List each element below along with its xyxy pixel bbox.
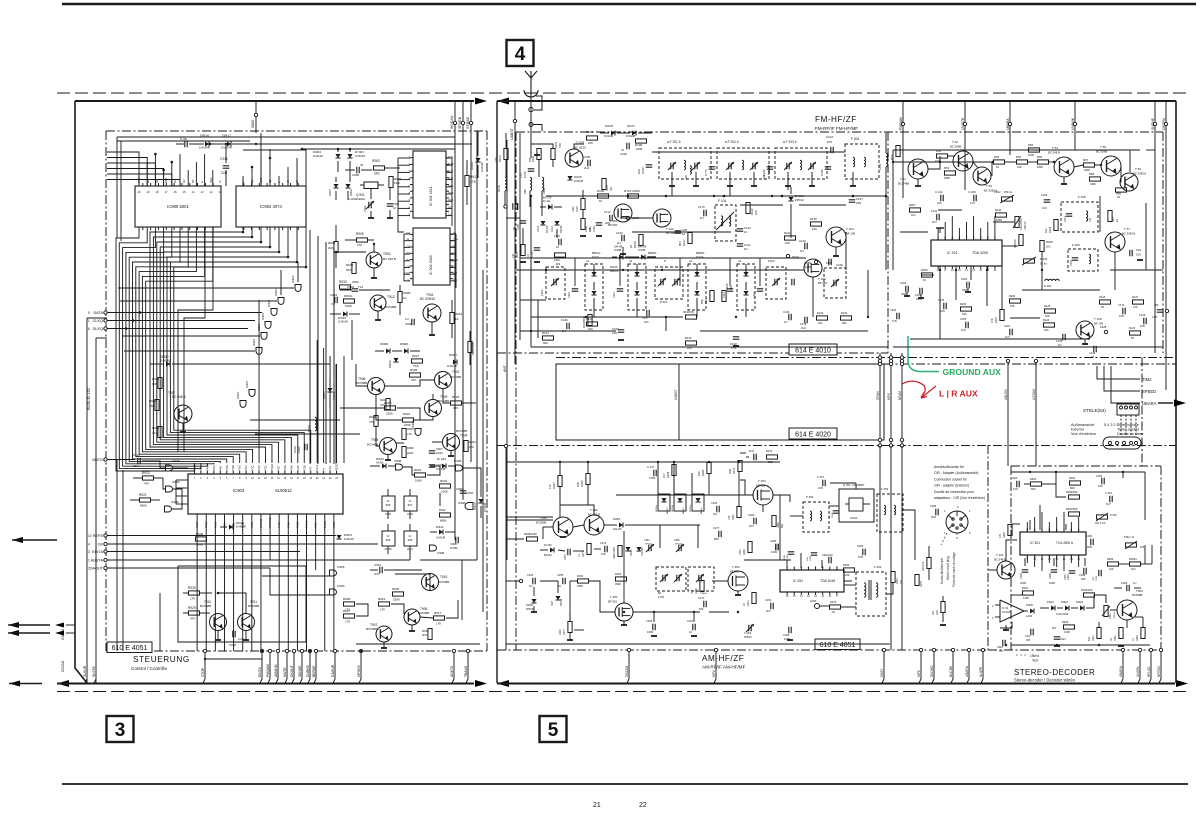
resistor R303 [1069, 495, 1080, 499]
svg-text:IC906: IC906 [337, 565, 345, 569]
svg-text:390K: 390K [615, 582, 621, 586]
svg-text:DLEQ: DLEQ [93, 327, 103, 331]
svg-text:C906: C906 [297, 446, 301, 453]
svg-text:4K7: 4K7 [152, 431, 158, 435]
wire SLKUR [86, 651, 88, 683]
svg-text:9: 9 [88, 311, 90, 315]
svg-text:BC548B: BC548B [385, 305, 396, 309]
resistor R104 [504, 149, 508, 160]
diode DI256 [531, 599, 536, 603]
wire t-mesh-4 [432, 441, 443, 443]
svg-text:R253: R253 [615, 572, 622, 576]
svg-text:R92A: R92A [384, 401, 392, 405]
svg-text:R59: R59 [994, 155, 1000, 159]
wire r310 [928, 546, 930, 557]
svg-text:1N4148: 1N4148 [626, 134, 636, 138]
wire DLEQ [107, 328, 248, 330]
wire bus905-8 [142, 227, 246, 463]
svg-text:SLKUR: SLKUR [83, 665, 87, 677]
svg-text:T 54: T 54 [1052, 146, 1058, 150]
gate IC907-1 [278, 298, 284, 305]
svg-text:R330: R330 [1003, 532, 1006, 538]
gate IC909m [330, 589, 337, 595]
svg-text:10K: 10K [152, 382, 157, 386]
wire st di chain [1093, 595, 1095, 608]
wire tl-stair 2 [107, 163, 155, 186]
svg-text:R125: R125 [1044, 304, 1051, 308]
resistor R106 [587, 136, 598, 140]
resistor R118b [722, 291, 726, 302]
wire ic901 rpin 5 [446, 193, 452, 195]
wire am h 612b [709, 611, 729, 613]
svg-text:C90B: C90B [352, 173, 359, 177]
wire ic901 rpin 3 [446, 179, 452, 181]
ground am 6 [691, 635, 697, 637]
wire tl-stair 5 [107, 180, 180, 187]
svg-text:4TK: 4TK [453, 406, 459, 410]
margin arrow B1 [8, 622, 19, 628]
ground T904 [450, 451, 452, 457]
svg-text:1M: 1M [713, 512, 717, 516]
bus arrow bottom right-end of left segment [475, 680, 487, 687]
wire ic201 riser 8 [994, 216, 996, 240]
svg-text:T917: T917 [168, 391, 175, 395]
svg-text:R274: R274 [896, 578, 899, 584]
svg-text:1U: 1U [1133, 581, 1136, 585]
capacitor C307 [1069, 570, 1076, 572]
svg-text:13MHz: 13MHz [700, 593, 707, 595]
svg-text:a F 203 b: a F 203 b [783, 140, 797, 144]
svg-text:EINTA: EINTA [258, 667, 262, 677]
capacitor C905 [411, 319, 413, 326]
wire am h581 mid2 [570, 580, 577, 582]
junction dot 586-317 [585, 316, 587, 318]
svg-text:100K: 100K [441, 490, 448, 494]
svg-text:DI90?: DI90? [328, 189, 332, 196]
wire sim2b [260, 133, 262, 186]
svg-text:C311: C311 [1025, 635, 1031, 638]
svg-text:P 501: P 501 [660, 300, 668, 304]
svg-text:C911: C911 [220, 157, 228, 161]
svg-text:L201: L201 [685, 174, 688, 180]
ground T906 [411, 625, 413, 631]
diode DI914 [442, 463, 446, 468]
wire st h520 [1011, 523, 1020, 525]
wire zf v down3 [970, 266, 972, 280]
junction dot 361-651 [360, 650, 362, 652]
svg-text:BERKE: BERKE [312, 665, 316, 677]
svg-text:1N: 1N [556, 246, 559, 249]
resistor R383 [1141, 628, 1145, 639]
svg-text:100N: 100N [784, 554, 786, 560]
svg-text:C 253: C 253 [744, 631, 751, 635]
svg-text:C209: C209 [1041, 193, 1048, 197]
wire ic904 riser rail [243, 149, 306, 151]
diode D188 [1104, 330, 1107, 333]
wire SLKUR vertical long [86, 318, 88, 651]
transistor T256 [584, 515, 604, 535]
diode DI904 [335, 154, 340, 158]
P254 coils [810, 511, 812, 521]
wire fm rail 258 [520, 257, 806, 259]
junction dot 1006-645 [1005, 644, 1007, 646]
wire bottom h644 [356, 643, 480, 645]
wire am pin OSZ? [883, 650, 885, 679]
wire ic903-top-21 [329, 356, 331, 463]
svg-text:R929: R929 [188, 606, 196, 610]
left module chain border bottom [106, 650, 487, 652]
wire ic201 rail b [993, 221, 1014, 223]
wire st c309 [1134, 587, 1141, 589]
svg-text:16N: 16N [133, 464, 139, 468]
wire fm h205 [799, 204, 846, 206]
wire am rail h2 [506, 580, 519, 582]
wire CLKO [107, 320, 255, 322]
wire fm var bot 3 [696, 310, 698, 317]
node drop SUCHE [1153, 122, 1156, 125]
wire fm-left v5 [867, 270, 869, 317]
svg-text:C903: C903 [363, 205, 367, 212]
svg-text:C123: C123 [1089, 351, 1096, 355]
svg-text:IC90B: IC90B [458, 501, 465, 505]
svg-text:PU/V: PU/V [289, 465, 293, 471]
svg-text:E: E [200, 181, 204, 183]
svg-text:15: 15 [182, 190, 186, 194]
wire pin BERKE [315, 651, 317, 679]
wire fm-left h5 [531, 346, 888, 348]
junction dot 1057-645 [1056, 644, 1058, 646]
svg-text:12: 12 [744, 230, 748, 234]
timer socket oval [1103, 437, 1141, 449]
svg-text:C305: C305 [1020, 573, 1023, 579]
wire st h595 [1011, 594, 1022, 596]
wire DAOUT [107, 567, 270, 569]
capacitor C104 [534, 247, 541, 249]
wire fm v791 [790, 214, 792, 238]
svg-text:F103: F103 [768, 259, 775, 263]
gate IC908r2 [456, 465, 463, 471]
stereo module chain bottom [988, 649, 1161, 651]
node UBLEN [1006, 359, 1009, 362]
module label box 614 E 4020 [789, 428, 837, 439]
resistor R920 [374, 416, 378, 427]
wire fm-left h7 [546, 269, 786, 271]
capacitor C903t [368, 202, 370, 209]
capacitor C124 [1122, 308, 1124, 315]
top dashed margin line [57, 92, 1190, 94]
node am pin DKDMD [932, 648, 935, 651]
wire zf h-a [893, 161, 994, 163]
wire bus905-3 [126, 227, 214, 464]
svg-text:8P2: 8P2 [678, 241, 682, 246]
svg-text:UPSHS: UPSHS [357, 665, 361, 677]
svg-text:R952: R952 [152, 426, 160, 430]
wire vertical rail v2 [317, 236, 319, 464]
svg-text:1N4148: 1N4148 [344, 537, 354, 541]
svg-text:UABST: UABST [510, 127, 514, 140]
wire zf mesh 9 [1095, 164, 1101, 166]
svg-text:R303/56K: R303/56K [1066, 490, 1078, 494]
annotation L R AUX arrow [902, 381, 925, 397]
wire ic901 pin 5 [398, 193, 410, 195]
wire filter drop 1 [671, 179, 673, 196]
svg-text:R256: R256 [580, 480, 584, 487]
resistor R321 [1097, 628, 1101, 639]
wire zf far v2 [1129, 150, 1131, 172]
wire zf mesh 8 [1074, 165, 1083, 167]
resistor R60 [1116, 188, 1127, 192]
svg-text:C321: C321 [1060, 638, 1066, 641]
svg-text:STOP: STOP [201, 667, 205, 677]
svg-text:C269: C269 [832, 512, 834, 518]
svg-text:CLKQ: CLKQ [93, 319, 103, 323]
svg-text:D1: D1 [191, 179, 195, 183]
capacitor C176 [703, 210, 705, 217]
wire ic902 rpin 7 [450, 280, 456, 282]
wire ic903-bot-7 [260, 517, 262, 651]
wire ic904 riser 4 [278, 176, 280, 186]
varactor diode A1-1 [634, 272, 639, 276]
ground C109 [618, 339, 624, 341]
resistor R952 [158, 427, 162, 438]
wire st v3 [1144, 472, 1146, 520]
wire ic901 pin 1 [398, 164, 410, 166]
svg-text:R111: R111 [704, 298, 708, 304]
wire ic301 dropper 6 [1070, 555, 1072, 563]
wire fm in 2 [574, 144, 584, 149]
svg-text:10K F 1%: 10K F 1% [1095, 522, 1106, 525]
junction dot 226-144 [225, 143, 227, 145]
svg-text:LTK: LTK [691, 589, 694, 594]
resistor R257 [587, 544, 591, 555]
wire bus905-7 [139, 227, 240, 463]
transistor T101 BP980 [614, 204, 632, 222]
svg-text:AAN3: AAN3 [1026, 615, 1033, 618]
junction dot r4 [251, 166, 254, 169]
junction dot 666-317 [665, 316, 667, 318]
wire fm-left h6 [546, 195, 886, 197]
ground T912 [377, 311, 379, 320]
wire ic903-top-22 [336, 364, 338, 463]
transformer F104 primary [721, 216, 723, 226]
wire am h520 [506, 519, 553, 521]
svg-text:1N4148: 1N4148 [574, 179, 584, 183]
junction dot 993-162 [992, 161, 994, 163]
transistor T251 [615, 603, 633, 621]
wire zf long mid2 [1002, 245, 1018, 247]
svg-text:IC909: IC909 [337, 584, 345, 588]
trimmer cap in 201b [670, 163, 672, 170]
svg-text:TIM2: TIM2 [1142, 377, 1152, 382]
wire fm var drop 5 [759, 258, 761, 286]
svg-text:10K: 10K [1017, 165, 1022, 169]
wire stair2-1 [178, 227, 213, 452]
node DI109 [626, 216, 629, 219]
svg-text:R11B: R11B [725, 283, 729, 290]
junction dot 336-252 [335, 251, 337, 253]
resistor R282 [772, 516, 776, 527]
wire REFE [107, 535, 336, 537]
svg-text:BF 199: BF 199 [1094, 322, 1103, 326]
resistor R906 [196, 537, 207, 541]
capacitor C907 [429, 450, 436, 452]
svg-text:R930: R930 [188, 586, 196, 590]
svg-text:100K: 100K [572, 206, 575, 212]
wire st below ic3 [1084, 558, 1086, 566]
wire gate out 1 [173, 467, 188, 469]
ground C61 [1138, 252, 1143, 254]
svg-text:AAN3: AAN3 [376, 461, 384, 465]
node st pin NFLSD [1149, 648, 1152, 651]
wire tl-stair 4 [107, 174, 172, 186]
svg-text:1N4148: 1N4148 [604, 134, 614, 138]
varactor diode A2-3 [743, 272, 748, 276]
resistor R118c [602, 179, 606, 190]
svg-text:BC 308/16: BC 308/16 [1122, 232, 1136, 236]
svg-text:DI107: DI107 [627, 124, 635, 128]
resistor R202 [922, 273, 933, 277]
capacitor ant gnd [512, 203, 514, 210]
svg-text:2U25F: 2U25F [450, 546, 458, 550]
svg-text:22N: 22N [940, 309, 945, 313]
wire fm antenna rail [506, 217, 520, 219]
resistor R917m [434, 616, 445, 620]
gate IC907-2 [271, 309, 277, 316]
wire bus904-4 [164, 227, 292, 463]
svg-text:R208: R208 [1046, 240, 1053, 244]
junction dot r1 [154, 153, 157, 156]
svg-text:907: 907 [408, 503, 413, 507]
resistor R105b [521, 245, 525, 256]
svg-text:BA379: BA379 [546, 225, 549, 233]
svg-text:DATA: DATA [93, 311, 103, 315]
svg-text:BF: BF [658, 592, 662, 595]
svg-text:C126: C126 [1139, 313, 1146, 317]
svg-text:C111: C111 [612, 292, 616, 298]
capacitor C228 [626, 143, 628, 150]
wire r-cluster 3 [427, 466, 440, 475]
wire AUSTA drop [409, 548, 411, 560]
capacitor C320 [1002, 640, 1004, 647]
wire zf mesh 5 [1005, 161, 1016, 163]
capacitor C128 [733, 336, 740, 338]
resistor R921b [386, 399, 390, 410]
node WDAU [453, 121, 456, 124]
svg-text:DI 111: DI 111 [543, 199, 551, 203]
gate IC907-4 [261, 333, 267, 340]
svg-text:C910: C910 [436, 463, 443, 467]
svg-text:IC907: IC907 [257, 323, 261, 331]
wire zf v down2 [955, 266, 957, 300]
svg-text:T901: T901 [383, 252, 391, 256]
svg-text:16K: 16K [576, 482, 580, 487]
wire drop UWSTE [964, 101, 966, 132]
svg-text:1N4148: 1N4148 [436, 536, 446, 540]
node am pin OSZ? [882, 648, 885, 651]
node pin DKOUT [292, 649, 295, 652]
capacitor C302 [1090, 539, 1092, 546]
wire pin SENKE [301, 651, 303, 679]
svg-text:POB: POB [302, 465, 306, 471]
svg-text:614 E 4020: 614 E 4020 [795, 432, 831, 439]
ground st 1 [1003, 629, 1009, 631]
svg-text:C256: C256 [646, 619, 653, 623]
wire ic903-top-19 [316, 340, 318, 463]
gate IC907-5 [256, 348, 262, 355]
svg-text:BC548B: BC548B [418, 611, 429, 615]
svg-text:10K: 10K [588, 141, 593, 145]
svg-text:DI 252: DI 252 [544, 543, 552, 547]
resistor R902b [464, 441, 468, 452]
svg-text:BF 962: BF 962 [608, 600, 617, 604]
wire st top 2 [1042, 483, 1056, 485]
resistor R330 [1008, 525, 1012, 536]
wire ic903-bot-9 [278, 517, 280, 651]
svg-text:180K: 180K [944, 176, 950, 180]
svg-text:19kHz: 19kHz [1030, 654, 1039, 658]
svg-text:BF 960: BF 960 [818, 281, 827, 285]
wire am rail h [506, 461, 780, 463]
wire top feed 1 [117, 136, 455, 138]
wire filter mid link [600, 138, 652, 144]
capacitor C274v [703, 601, 705, 608]
wire st top 1 [1024, 483, 1030, 485]
svg-text:FM-RF/IF FM-HF/MF: FM-RF/IF FM-HF/MF [815, 126, 858, 131]
wire st t303 [1110, 609, 1117, 611]
svg-text:IC905 5001: IC905 5001 [167, 204, 189, 209]
svg-text:R928: R928 [343, 597, 351, 601]
wire ic901 pin 7 [398, 207, 410, 209]
svg-text:R124: R124 [1043, 318, 1050, 322]
trimmer F183 [824, 268, 846, 298]
wire ic301 riser 0 [1026, 522, 1028, 532]
resistor R902 [374, 166, 385, 170]
svg-text:Außenansicht: Außenansicht [1071, 423, 1095, 427]
wire am v739 [738, 472, 740, 506]
svg-text:470N: 470N [649, 476, 655, 480]
svg-text:7/5K lin: 7/5K lin [1114, 611, 1116, 619]
gate IC907-7 [240, 401, 246, 408]
svg-text:1N5: 1N5 [1026, 639, 1031, 642]
svg-text:a F 201 b: a F 201 b [667, 140, 681, 144]
svg-text:10K: 10K [812, 227, 817, 231]
svg-text:2U2: 2U2 [801, 326, 806, 330]
svg-text:10K: 10K [785, 241, 790, 245]
resistor R205v [1000, 310, 1004, 321]
svg-text:R923: R923 [440, 479, 448, 483]
wire ic903-bot-13 [315, 517, 317, 570]
wire st p321 [1105, 595, 1107, 603]
wire ic903-bot-5 [242, 517, 244, 651]
wire pin STOP [204, 651, 206, 679]
svg-text:adaptateur - CIR (Vue d’extéri: adaptateur - CIR (Vue d’extérieur) [934, 496, 985, 500]
svg-text:BC548B: BC548B [366, 627, 377, 631]
svg-text:25B: 25B [768, 460, 773, 464]
svg-text:18K: 18K [610, 186, 613, 191]
svg-text:T905: T905 [371, 438, 378, 442]
capacitor C150 [528, 168, 535, 170]
wire st pin UBARA [1122, 650, 1124, 679]
svg-text:909: 909 [408, 538, 413, 542]
svg-text:R123: R123 [1129, 326, 1136, 330]
ground T907 [383, 642, 385, 648]
svg-text:STEREO-DECODER: STEREO-DECODER [1014, 668, 1095, 677]
wire am r268 [506, 538, 524, 540]
module label box 610 E 4051 am [815, 639, 860, 650]
svg-text:1M2: 1M2 [394, 181, 400, 185]
svg-text:47K: 47K [990, 318, 994, 323]
diode DI915 [382, 463, 386, 468]
